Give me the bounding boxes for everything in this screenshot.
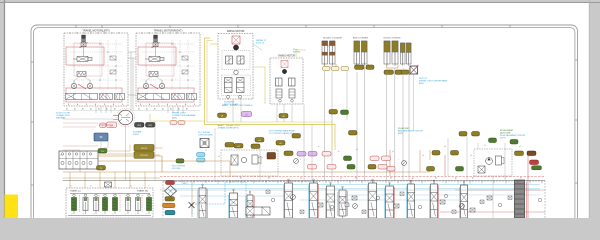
svg-text:B2: B2 — [186, 109, 188, 111]
svg-text:B2: B2 — [138, 109, 140, 111]
svg-text:a1: a1 — [205, 150, 207, 152]
svg-text:1: 1 — [136, 214, 137, 216]
svg-text:B2: B2 — [154, 109, 156, 111]
svg-text:B2: B2 — [82, 109, 84, 111]
svg-text:1: 1 — [126, 214, 127, 216]
svg-text:5D-10: 5D-10 — [222, 105, 228, 107]
svg-text:(B18): (B18) — [419, 83, 424, 85]
svg-text:1: 1 — [103, 214, 104, 216]
svg-text:B2: B2 — [66, 109, 68, 111]
svg-text:B5: B5 — [435, 178, 437, 180]
svg-text:(B28): (B28) — [398, 133, 403, 135]
svg-text:(OPT): (OPT) — [500, 138, 506, 140]
svg-text:B2: B2 — [170, 109, 172, 111]
svg-text:P1: P1 — [300, 178, 302, 180]
svg-text:A1: A1 — [162, 108, 164, 111]
svg-text:P3: P3 — [110, 186, 112, 188]
svg-text:1: 1 — [83, 214, 84, 216]
svg-text:SWIVEL: SWIVEL — [293, 52, 301, 54]
svg-text:a4: a4 — [422, 155, 424, 157]
svg-text:TRAVEL (R): TRAVEL (R) — [137, 190, 148, 193]
svg-text:A8: A8 — [268, 177, 270, 180]
svg-text:p2: p2 — [392, 151, 394, 153]
svg-text:b: b — [318, 146, 319, 148]
svg-text:1: 1 — [72, 214, 73, 216]
svg-text:A1: A1 — [178, 108, 180, 111]
svg-text:t2: t2 — [280, 145, 281, 148]
svg-text:TRAVEL MOTOR(RIGHT): TRAVEL MOTOR(RIGHT) — [154, 30, 183, 33]
svg-text:A5: A5 — [472, 177, 474, 180]
svg-text:p: p — [262, 157, 263, 159]
svg-text:5D-3 (B5): 5D-3 (B5) — [172, 168, 181, 170]
svg-text:A2: A2 — [412, 177, 414, 180]
svg-text:a: a — [300, 159, 301, 161]
svg-text:1: 1 — [94, 214, 95, 216]
svg-text:(P1): (P1) — [148, 125, 152, 127]
svg-text:BOOM CYLINDER: BOOM CYLINDER — [384, 38, 401, 40]
svg-text:1: 1 — [147, 214, 148, 216]
svg-text:(B18): (B18) — [172, 118, 177, 120]
svg-text:A1: A1 — [90, 108, 92, 111]
svg-text:t3: t3 — [484, 144, 485, 147]
svg-text:T: T — [148, 186, 149, 188]
svg-text:B2: B2 — [455, 178, 457, 180]
svg-text:P2: P2 — [90, 186, 92, 188]
svg-text:P0: P0 — [520, 178, 522, 180]
svg-text:(TRAVEL RIGHT/LEFT): (TRAVEL RIGHT/LEFT) — [218, 127, 239, 130]
svg-text:b1: b1 — [218, 156, 220, 158]
svg-text:SWIVEL JOINT (SWING): SWIVEL JOINT (SWING) — [230, 105, 253, 107]
svg-text:P2: P2 — [340, 178, 342, 180]
svg-text:(P2): (P2) — [137, 125, 141, 127]
svg-text:5D-11,12: 5D-11,12 — [256, 43, 265, 45]
svg-text:TRAVEL MOTOR(LEFT): TRAVEL MOTOR(LEFT) — [82, 30, 109, 33]
svg-text:B8: B8 — [240, 178, 242, 180]
svg-text:TRAVEL (L): TRAVEL (L) — [70, 190, 81, 193]
svg-text:B6: B6 — [355, 178, 357, 180]
svg-text:a3: a3 — [356, 149, 358, 151]
svg-text:PILOT: PILOT — [141, 148, 148, 150]
svg-text:1: 1 — [113, 214, 114, 216]
svg-text:A1: A1 — [146, 108, 148, 111]
svg-text:A6: A6 — [390, 177, 392, 180]
svg-text:SWING MOTOR: SWING MOTOR — [278, 56, 295, 58]
svg-text:SWING MOTOR: SWING MOTOR — [227, 30, 245, 33]
svg-text:TO CONTROL VALVE) 5D-2: TO CONTROL VALVE) 5D-2 — [269, 132, 295, 135]
svg-text:5D: 5D — [99, 136, 102, 139]
svg-text:A1: A1 — [74, 108, 76, 111]
svg-text:B2: B2 — [98, 109, 100, 111]
svg-text:BUCKET CYLINDER: BUCKET CYLINDER — [323, 38, 342, 40]
svg-text:JOINT: JOINT — [133, 134, 140, 136]
svg-text:P1: P1 — [70, 186, 72, 188]
svg-text:a5: a5 — [519, 146, 521, 148]
svg-text:b4: b4 — [444, 146, 446, 148]
svg-text:ARM CYLINDER: ARM CYLINDER — [353, 37, 369, 40]
svg-text:B2: B2 — [114, 109, 116, 111]
svg-text:P4: P4 — [130, 186, 132, 188]
svg-text:JOINT (DOZER): JOINT (DOZER) — [198, 135, 213, 137]
svg-text:A1: A1 — [106, 108, 108, 111]
svg-text:p3: p3 — [470, 155, 472, 157]
